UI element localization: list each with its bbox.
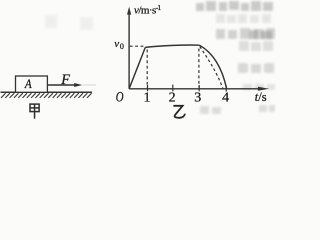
force arrow F head — [74, 83, 82, 87]
svg-text:0: 0 — [120, 42, 124, 51]
bleed-through faint blobs upper-left — [45, 15, 93, 30]
tick 2 — [172, 85, 174, 92]
tick 4 — [225, 86, 227, 92]
bleed-through faint row right above axis — [243, 84, 275, 90]
dashed vertical at t=3 — [198, 49, 200, 88]
v-t curve plateau segment — [145, 45, 199, 47]
x-axis arrowhead — [258, 87, 269, 91]
bleed-through text row 1b right — [216, 14, 271, 23]
label jia (甲) drawn as strokes — [30, 104, 39, 119]
v-t curve solid descending curve — [199, 45, 226, 88]
block A box — [16, 76, 48, 92]
x-axis — [129, 88, 259, 90]
dashed vertical at t=1 — [146, 50, 148, 88]
bleed-through darker accents row 2 — [249, 30, 272, 39]
svg-text:O: O — [116, 89, 124, 105]
ground line — [1, 91, 93, 93]
ground hatching — [1, 93, 92, 98]
label yi (乙) drawn as strokes — [173, 106, 185, 118]
v-t curve rising segment — [129, 47, 145, 88]
bleed-through text row 4 right — [238, 63, 274, 73]
tick 1 — [147, 85, 149, 91]
background paper — [0, 0, 276, 121]
svg-text:2: 2 — [169, 91, 176, 106]
force arrow F line — [47, 84, 75, 86]
bleed-through text row 2 right — [216, 28, 275, 39]
y-axis — [128, 12, 130, 89]
bleed-through text row top-right — [196, 1, 273, 11]
bleed-through text row 3 right — [239, 41, 273, 51]
svg-text:A: A — [24, 76, 32, 91]
dashed descending curve — [200, 47, 223, 89]
svg-text:4: 4 — [222, 91, 229, 106]
svg-text:F: F — [60, 72, 70, 88]
svg-text:1: 1 — [144, 90, 151, 105]
faint smear after arrowhead — [83, 84, 97, 86]
svg-text:t/s: t/s — [255, 90, 267, 104]
svg-text:3: 3 — [194, 91, 201, 106]
bleed-through faint blobs bottom middle — [200, 105, 275, 114]
tick 3 — [198, 85, 200, 91]
svg-text:v: v — [114, 38, 119, 50]
dashed horizontal at v0 — [130, 45, 144, 47]
y-axis arrowhead — [127, 7, 131, 15]
